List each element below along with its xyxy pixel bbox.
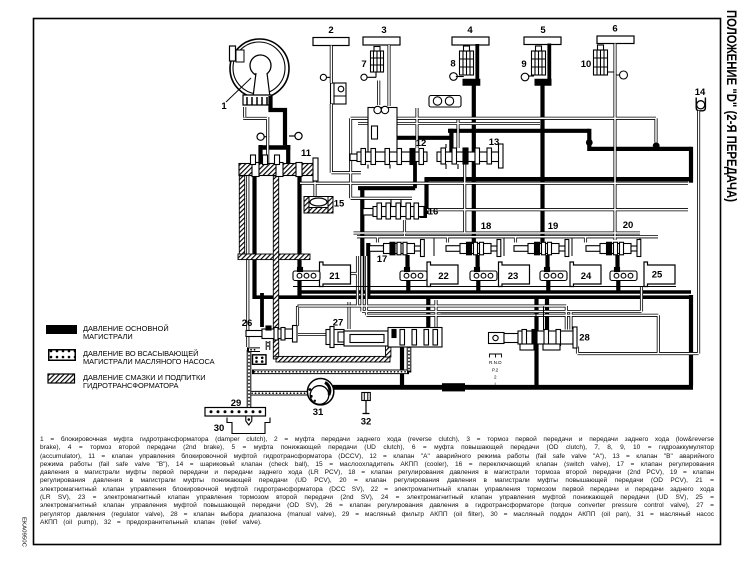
- wire PCV valve feeds: [378, 237, 586, 243]
- valve 12 fail safe A: [350, 149, 427, 169]
- wire right drop x691 to H3a: [689, 147, 693, 183]
- svg-text:2: 2: [494, 375, 497, 380]
- wire accumulator7 drop: [377, 81, 380, 106]
- svg-text:28: 28: [579, 333, 590, 344]
- wire rail under H3a: [300, 182, 688, 185]
- svg-text:ПОЛОЖЕНИЕ "D" (2-Я ПЕРЕДАЧА): ПОЛОЖЕНИЕ "D" (2-Я ПЕРЕДАЧА): [724, 10, 739, 202]
- valve 26 torque converter PCV: [246, 326, 297, 343]
- wire manifold above valve 11: [260, 145, 291, 150]
- wire lube bottom horizontal: [238, 254, 310, 260]
- clutch bar 5: [524, 37, 561, 45]
- wire drop to valve 11 left port: [258, 145, 262, 164]
- svg-text:L: L: [495, 382, 498, 387]
- svg-text:P.2: P.2: [492, 368, 499, 373]
- wire acc9 cap: [535, 79, 552, 86]
- wire lube riser into valve27: [386, 346, 391, 357]
- node stub circle left of valve 11 feed: [257, 132, 302, 140]
- check ball 14: [696, 98, 705, 111]
- svg-text:4: 4: [467, 25, 473, 36]
- svg-text:16: 16: [428, 207, 439, 218]
- wire drop x451 to valve 12/13: [449, 129, 453, 157]
- svg-text:10: 10: [581, 59, 592, 70]
- svg-text:ГИДРОТРАНСФОРМАТОРА: ГИДРОТРАНСФОРМАТОРА: [83, 381, 178, 390]
- solenoid box 22: [427, 262, 458, 287]
- svg-text:29: 29: [231, 398, 242, 409]
- wire y300 elbow up right of 28: [545, 297, 549, 332]
- wire clutch6 stem to valve20: [613, 44, 616, 241]
- wire accumulator8 down to valve18: [472, 79, 476, 244]
- wire rail above PCV valves: [354, 233, 659, 237]
- selector positions: [489, 354, 502, 387]
- wire hollow pipe network (outer): [243, 44, 698, 354]
- svg-text:14: 14: [695, 87, 706, 98]
- accumulator 7: [361, 47, 384, 81]
- accumulator 10: [594, 45, 628, 79]
- wire TC outlet down: [268, 96, 272, 110]
- wire main highway y298: [253, 295, 690, 299]
- valve 20 OD PCV: [586, 240, 641, 257]
- suction junction box: [253, 355, 267, 365]
- cooler 15: [304, 197, 333, 214]
- torque converter 1: [226, 39, 289, 105]
- wire feed to valve27 leftbox: [347, 302, 350, 329]
- wire clutch2 stem to valve12: [331, 46, 361, 173]
- svg-text:8: 8: [450, 59, 455, 70]
- solenoid box 23: [499, 262, 530, 287]
- oil filter 29: [205, 408, 266, 426]
- legend suction bar: [49, 350, 76, 361]
- svg-text:МАГИСТРАЛИ МАСЛЯНОГО НАСОСА: МАГИСТРАЛИ МАСЛЯНОГО НАСОСА: [83, 357, 215, 366]
- valve 16 switch valve: [363, 200, 424, 220]
- svg-text:9: 9: [521, 59, 526, 70]
- solenoid box 24: [570, 262, 601, 287]
- wire fitting23 riser: [476, 255, 481, 291]
- wire right main drop x691: [689, 295, 693, 386]
- svg-text:EKA0950C: EKA0950C: [21, 517, 27, 547]
- valve 27 regulator: [326, 327, 442, 348]
- svg-text:17: 17: [377, 254, 388, 265]
- wire x361 drop from H3b to y290: [360, 187, 364, 294]
- fitting 21: [293, 268, 320, 281]
- wire fitting22 riser: [405, 255, 410, 291]
- svg-text:R.N.D: R.N.D: [489, 360, 502, 365]
- wire valve11 to cooler: [313, 182, 316, 197]
- svg-text:27: 27: [333, 318, 344, 329]
- valve 19 UD PCV: [514, 240, 569, 257]
- wire bar5 stem: [547, 44, 551, 81]
- wire acc8 cap: [463, 79, 481, 86]
- wire drop x426.5 to valve16: [424, 178, 428, 215]
- svg-text:22: 22: [438, 271, 449, 282]
- svg-text:15: 15: [334, 199, 345, 210]
- svg-text:23: 23: [508, 271, 519, 282]
- svg-text:24: 24: [581, 271, 592, 282]
- wire upper return y118: [351, 118, 656, 198]
- svg-text:32: 32: [361, 417, 372, 428]
- svg-text:13: 13: [489, 137, 500, 148]
- wire valve16 drop: [403, 220, 406, 237]
- wire x539 drop to bottom: [534, 297, 538, 387]
- svg-text:30: 30: [214, 423, 225, 434]
- wire manual valve feed: [569, 312, 572, 330]
- wire H1 upper highway: [448, 129, 590, 133]
- valve 28 manual valve: [489, 327, 578, 350]
- wire TC outlet right: [268, 110, 285, 145]
- wire lube left vertical: [239, 176, 244, 256]
- svg-text:МАГИСТРАЛИ: МАГИСТРАЛИ: [83, 332, 133, 341]
- wire main highway y290: [299, 290, 691, 294]
- wire lube long vertical: [273, 176, 278, 359]
- wire manual valve rail C: [367, 256, 659, 354]
- legend lube bar: [48, 374, 75, 383]
- wire drop to valve 11 right port: [286, 145, 290, 164]
- valve 13 fail safe B: [437, 144, 503, 169]
- wire H2 y149: [587, 147, 691, 151]
- accumulator 8: [450, 46, 474, 80]
- svg-text:3: 3: [381, 25, 386, 36]
- oil pump 31: [307, 379, 333, 405]
- svg-text:12: 12: [416, 138, 427, 149]
- wire x368 valve17 area drop: [366, 243, 370, 298]
- wire coupler on bottom line: [442, 383, 465, 391]
- wire check ball 14 line: [578, 111, 699, 354]
- svg-text:25: 25: [652, 270, 663, 281]
- wire H3b y191.5: [358, 186, 415, 190]
- wire lube long horizontal to valve27: [276, 356, 390, 362]
- svg-text:7: 7: [361, 59, 366, 70]
- solenoid box 25: [644, 262, 675, 287]
- node junction2: [653, 142, 660, 149]
- wire feed valve26: [260, 293, 264, 327]
- clutch bar 6: [597, 36, 634, 44]
- numbers: [214, 24, 706, 435]
- wire chamber out H0: [383, 136, 451, 140]
- wire manual valve rail B: [362, 256, 642, 312]
- wire left drain column: [246, 175, 249, 347]
- svg-text:31: 31: [313, 407, 324, 418]
- fitting 22: [400, 268, 427, 281]
- wire valve11 down to solenoid 21 fitting: [297, 175, 301, 269]
- wire valve16 right port cap: [420, 208, 428, 219]
- wire bar4 stem: [475, 44, 479, 80]
- solenoid box 21: [320, 262, 351, 287]
- wire H3a y182.5: [425, 177, 692, 181]
- chamber above valve 12: [368, 106, 397, 154]
- svg-text:11: 11: [301, 148, 312, 159]
- wire accumulator9 down to valve19: [540, 79, 544, 244]
- fitting 24: [540, 268, 567, 281]
- svg-text:26: 26: [242, 318, 253, 329]
- valve 17 LR PCV: [370, 240, 425, 257]
- wire fitting25 riser: [615, 255, 620, 291]
- wire solenoid21 link: [350, 272, 357, 275]
- valve 18 2nd PCV: [446, 240, 501, 257]
- wire bottom main line: [333, 385, 693, 390]
- wire manual valve rail A: [298, 256, 567, 330]
- suction dotted pipes: [247, 334, 409, 409]
- svg-text:6: 6: [612, 24, 617, 35]
- wire hollow pipe network (inner white): [243, 44, 699, 355]
- svg-text:5: 5: [540, 25, 546, 36]
- fitting 25: [610, 268, 637, 281]
- wire x589 drop: [587, 129, 591, 147]
- wire chamber drops to valves 12 13: [417, 108, 458, 148]
- wire fitting24 riser: [545, 255, 550, 291]
- valve 11 DCCV: [239, 155, 318, 181]
- wire valve11 to H298 at x253: [252, 175, 256, 299]
- wire clutch3 stem: [387, 45, 390, 106]
- accumulator chamber under bar2: [320, 74, 346, 104]
- oil pan 30: [227, 418, 270, 434]
- hatched lube pipes: [238, 176, 391, 362]
- wire valve16 to right rail: [427, 208, 688, 211]
- fitting 23: [470, 268, 497, 281]
- wire pump riser x402: [400, 345, 404, 387]
- svg-text:1: 1: [221, 101, 227, 112]
- svg-text:18: 18: [481, 221, 492, 232]
- wire fitting21 to H298: [297, 281, 301, 299]
- accumulator 9: [521, 46, 545, 81]
- relief valve 32: [362, 393, 371, 414]
- svg-text:19: 19: [548, 221, 559, 232]
- capsule above valve 13: [429, 96, 461, 108]
- svg-text:20: 20: [623, 220, 634, 231]
- wire valve26 to valve27: [298, 333, 326, 336]
- wire thin singles: bay dividers: [293, 238, 676, 330]
- wire valve13 drop: [463, 164, 466, 233]
- node junction: [586, 139, 593, 146]
- legend main pressure bar: [46, 325, 77, 334]
- clutch bar 3: [363, 37, 400, 45]
- clutch bar 2: [313, 38, 349, 46]
- wire x428 drop to valve27: [426, 299, 430, 334]
- svg-text:21: 21: [329, 271, 340, 282]
- clutch bar 4: [452, 37, 489, 45]
- svg-text:2: 2: [328, 25, 333, 36]
- wire TC left foot to valve11: [243, 107, 268, 164]
- wire upper return y123: [358, 122, 540, 125]
